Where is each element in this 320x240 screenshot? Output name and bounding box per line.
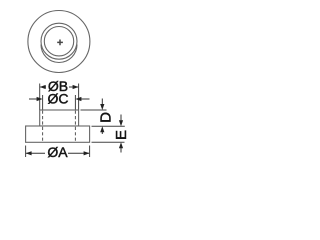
top view: hole circle (ØC) [44, 27, 73, 56]
dimension ØA: extension line left [25, 146, 27, 158]
dimension ØB: extension line right [78, 84, 80, 111]
svg-text:D: D [97, 112, 114, 123]
side view: hidden hole line right [74, 111, 76, 142]
dimension ØA: extension line right [89, 146, 91, 158]
dimension ØC: extension line left [42, 95, 44, 110]
top view: boss base arc [41, 45, 77, 63]
dimension D: upper arrow [101, 99, 103, 105]
dimension ØB: extension line left [39, 84, 41, 111]
dimension D: boss top extension line [81, 109, 107, 111]
dimension D: flange top extension line [92, 125, 125, 127]
dimension ØB: right arrow [69, 86, 78, 88]
top view: center cross [57, 40, 63, 46]
svg-text:ØA: ØA [47, 144, 68, 160]
dimension E: lower arrow [120, 148, 122, 153]
dimension ØA: right arrow [68, 152, 89, 154]
top view: boss outer circle (ØB) [41, 23, 77, 59]
dimension D: lower arrow [101, 132, 103, 134]
dimension ØA: label [46, 146, 68, 160]
svg-text:ØC: ØC [48, 91, 69, 107]
dimension ØC: right outside arrow [81, 98, 90, 100]
dimension ØB: left arrow [40, 86, 46, 88]
side view: hidden hole line left [42, 111, 44, 142]
dimension ØA: left arrow [26, 152, 45, 154]
dimension ØC: extension line right [74, 95, 76, 110]
svg-text:E: E [113, 130, 130, 140]
dimension E: flange bottom extension line [92, 141, 125, 143]
side view: boss rectangle [40, 110, 79, 126]
dimension ØC: left outside arrow [29, 98, 37, 100]
top view: flange outer circle (ØA) [28, 11, 90, 73]
dimension E: upper arrow [120, 115, 122, 121]
side view: flange rectangle [26, 126, 90, 142]
